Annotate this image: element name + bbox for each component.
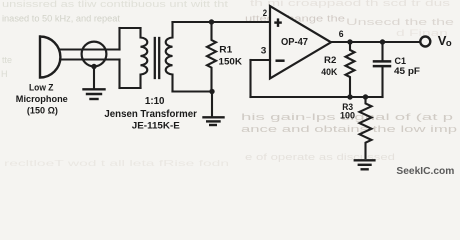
svg-text:JE-115K-E: JE-115K-E <box>132 121 181 132</box>
svg-text:Microphone: Microphone <box>16 94 68 105</box>
svg-text:ance and obtains the low imp: ance and obtains the low imp <box>241 124 457 134</box>
svg-text:40K: 40K <box>321 67 337 77</box>
svg-text:(150 Ω): (150 Ω) <box>27 106 58 117</box>
svg-text:150K: 150K <box>219 56 243 67</box>
svg-text:C1: C1 <box>395 56 407 67</box>
svg-text:3: 3 <box>261 46 267 57</box>
svg-text:th mi croappaod th scd tr dus: th mi croappaod th scd tr dus <box>250 0 451 8</box>
svg-text:45 pF: 45 pF <box>394 66 420 77</box>
svg-text:2: 2 <box>263 8 267 19</box>
svg-text:6: 6 <box>339 29 344 40</box>
svg-text:unsissred as tliw conttibuous: unsissred as tliw conttibuous unt witt t… <box>2 0 229 9</box>
svg-text:100: 100 <box>340 111 355 121</box>
svg-text:Low Z: Low Z <box>29 83 54 94</box>
svg-text:tte: tte <box>2 55 12 65</box>
svg-text:Jensen Transformer: Jensen Transformer <box>104 109 197 120</box>
svg-text:R1: R1 <box>219 44 233 55</box>
svg-text:1:10: 1:10 <box>145 96 165 107</box>
svg-text:H: H <box>1 69 8 79</box>
svg-text:recltloeT wod t all leta fRise: recltloeT wod t all leta fRise fodn <box>4 158 229 168</box>
svg-text:SeekIC.com: SeekIC.com <box>396 165 454 177</box>
svg-text:OP-47: OP-47 <box>281 37 308 48</box>
svg-text:Unsecd the the: Unsecd the the <box>346 17 454 27</box>
svg-text:o: o <box>446 38 452 49</box>
svg-text:inased to 50 kHz, and repea: inased to 50 kHz, and repeat <box>2 14 121 24</box>
svg-text:R2: R2 <box>324 55 336 65</box>
